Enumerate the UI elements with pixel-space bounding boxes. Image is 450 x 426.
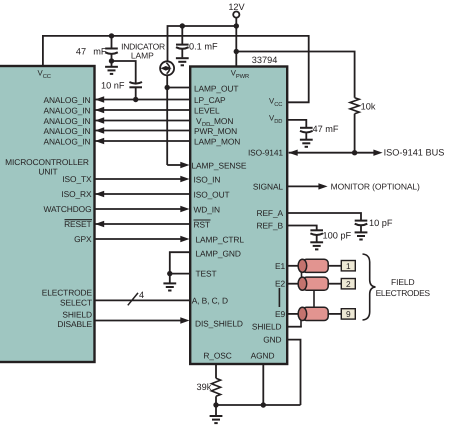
svg-text:ANALOG_IN: ANALOG_IN [43,126,90,136]
wire ANALOG_IN row5 / LAMP_MON [94,138,190,144]
ground for C2 [300,140,313,147]
svg-text:100 pF: 100 pF [323,231,352,241]
wire LAMP_SENSE with arrow [167,164,182,166]
svg-text:LAMP: LAMP [131,50,154,60]
wire cyl1 to box1 [328,265,341,267]
svg-text:PWR_MON: PWR_MON [194,126,237,136]
svg-text:LAMP_OUT: LAMP_OUT [194,83,238,93]
microcontroller labels [5,68,92,329]
wire LAMP_OUT [167,87,190,89]
svg-text:E2: E2 [275,279,285,289]
svg-text:LEVEL: LEVEL [194,105,220,115]
wire ANALOG_IN row2 / LEVEL [94,107,190,113]
wire E2 [288,283,301,285]
wire rail y26 to lamp [168,26,237,61]
wire cyl2 to cyl9 [313,290,315,307]
indicator lamp [121,41,174,75]
wire ANALOG_IN row1 / LP_CAP [94,96,190,102]
svg-text:SIGNAL: SIGNAL [253,182,284,192]
svg-text:LAMP_CTRL: LAMP_CTRL [196,234,245,244]
wire V_DD to 47mF [288,120,307,128]
svg-text:2: 2 [346,279,351,289]
E2..E9 continuation line [278,288,280,307]
terminal box 9 [341,309,355,319]
svg-text:0.1 mF: 0.1 mF [189,41,218,51]
terminal box 2 [341,279,355,289]
wire AGND down [262,364,264,405]
wire E1 [288,265,301,267]
svg-text:LAMP_MON: LAMP_MON [194,136,240,146]
svg-text:_MON: _MON [209,116,234,126]
wire ANALOG_IN row4 / PWR_MON [94,127,190,133]
node 47mF bottom [109,58,114,63]
svg-text:GND: GND [263,335,281,345]
wire E9 [288,313,301,315]
svg-text:TEST: TEST [196,269,217,279]
node AGND/gnd [261,402,266,407]
svg-text:33794: 33794 [252,55,278,65]
svg-text:UNIT: UNIT [38,166,57,176]
svg-text:REF_A: REF_A [257,208,284,218]
electrode cylinder 2 [298,277,328,290]
svg-text:LP_CAP: LP_CAP [194,95,226,105]
wire TEST [170,273,190,275]
svg-text:ELECTRODE: ELECTRODE [42,287,93,297]
wire WATCHDOG to WD_IN [94,206,190,212]
33794 right pin labels [203,96,285,360]
svg-text:RESET: RESET [64,219,91,229]
ground for 47mF [105,67,118,74]
node 12V/lamp rail [234,23,239,28]
wire rail y51.5 to 10k [236,52,354,98]
wire R_OSC down [215,364,217,378]
svg-text:ISO-9141: ISO-9141 [248,147,283,157]
svg-text:LAMP_SENSE: LAMP_SENSE [192,160,247,170]
node 47mF tap on rail [109,33,114,38]
capacitor 100 pF [310,230,351,242]
capacitor 10 nF [101,81,142,100]
svg-text:E1: E1 [275,261,285,271]
wire REF_A to 10pF [288,213,361,221]
wire ground bus y405 [216,404,301,406]
wire REF_B to 100pF [288,226,317,231]
svg-text:MICROCONTROLLER: MICROCONTROLLER [5,157,89,167]
wire rail y35.5 Vcc rail [43,36,309,102]
svg-text:DIS_SHIELD: DIS_SHIELD [195,318,243,328]
wire 39k to ground node [215,396,217,416]
node 10nF to ANALOG row1 [133,97,138,102]
svg-text:CC: CC [274,101,282,108]
svg-text:DD: DD [274,119,282,125]
svg-text:39k: 39k [197,382,212,392]
ground for 100pF [310,242,323,249]
wire SHIELD DISABLE to DIS_SHIELD [94,317,190,323]
wire cyl9 to shield [300,321,302,327]
wire 12V vertical to V_PWR [235,18,237,67]
svg-text:ISO_OUT: ISO_OUT [194,189,230,199]
33794 left pin labels [192,68,250,328]
resistor R2 39k [197,378,221,396]
svg-text:CC: CC [43,73,51,80]
wire ISO_OUT to ISO_RX [94,191,190,197]
node 0.1mF tap [180,23,185,28]
resistor R1 10k [350,98,376,114]
wire cyl1 to cyl2 [301,272,303,277]
capacitor 10 pF [355,218,393,233]
svg-text:47 mF: 47 mF [313,124,339,134]
wire SHIELD [288,326,302,328]
microcontroller block U1 [0,66,95,362]
wire 10k to ISO-9141 line [354,114,356,153]
svg-text:ISO_RX: ISO_RX [61,189,92,199]
ground for 0.1mF [176,58,189,65]
svg-text:4: 4 [139,290,144,300]
IC 33794 block U2 [190,67,287,365]
svg-text:A, B, C, D: A, B, C, D [192,296,228,306]
label FIELD ELECTRODES [376,277,431,298]
node lamp/LAMP_OUT junction [165,85,170,90]
svg-text:10 pF: 10 pF [369,218,393,228]
ground for 10pF [355,232,368,239]
svg-text:9: 9 [346,309,351,319]
svg-text:10 nF: 10 nF [101,81,125,91]
svg-text:ANALOG_IN: ANALOG_IN [43,116,90,126]
capacitor 0.1 mF [176,26,218,57]
brace field electrodes [363,254,376,320]
node TEST/LAMP_GND [167,271,172,276]
svg-text:DISABLE: DISABLE [57,319,92,329]
bus slash [128,293,138,305]
svg-text:WATCHDOG: WATCHDOG [43,204,91,214]
svg-text:12V: 12V [228,2,245,12]
svg-text:SELECT: SELECT [60,297,92,307]
svg-text:47 mF: 47 mF [76,46,107,56]
svg-text:R_OSC: R_OSC [203,350,231,360]
wire GPX to LAMP_CTRL [94,236,190,242]
svg-text:SHIELD: SHIELD [252,322,282,332]
capacitor C2 47 mF [300,124,339,139]
svg-text:ANALOG_IN: ANALOG_IN [43,106,90,116]
svg-text:10k: 10k [361,102,376,112]
wire LAMP_GND to ground [170,252,190,273]
node 39k/gnd [213,402,218,407]
svg-text:LAMP_GND: LAMP_GND [196,249,241,259]
svg-text:ELECTRODES: ELECTRODES [376,288,431,298]
svg-text:AGND: AGND [251,350,275,360]
wire GND down [288,340,301,405]
node 10k/ISO-9141 [352,150,357,155]
wire lamp bottom to LAMP_OUT / LAMP_SENSE [166,75,168,165]
ground for 39k [210,416,223,423]
svg-text:GPX: GPX [74,234,92,244]
svg-text:MONITOR (OPTIONAL): MONITOR (OPTIONAL) [331,182,420,192]
svg-text:E9: E9 [275,309,285,319]
wire SIGNAL to monitor [288,182,420,192]
svg-text:FIELD: FIELD [391,277,415,287]
svg-text:PWR: PWR [236,74,249,80]
svg-text:REF_B: REF_B [257,221,284,231]
wire ELECTRODE SELECT bus [94,299,190,301]
svg-text:ISO_IN: ISO_IN [194,174,221,184]
wire ANALOG_IN row3 / VDD_MON [94,117,190,123]
wire cyl9 to box9 [328,313,341,315]
svg-text:ISO_TX: ISO_TX [62,174,92,184]
svg-text:RST: RST [194,219,210,229]
terminal box 1 [341,261,355,271]
node 12V/10k rail [234,49,239,54]
wire ISO-9141 bus line with arrows [289,148,445,158]
svg-text:ANALOG_IN: ANALOG_IN [43,137,90,147]
12V supply terminal [228,2,245,18]
ground for TEST/LAMP_GND [163,274,176,291]
wire 47mF node to 10nF [112,61,136,84]
svg-text:SHIELD: SHIELD [62,309,92,319]
electrode cylinder 1 [298,259,328,272]
svg-text:ISO-9141 BUS: ISO-9141 BUS [384,148,445,158]
electrode cylinder 9 [298,307,328,320]
svg-text:WD_IN: WD_IN [194,204,221,214]
wire RST to RESET [94,221,190,227]
capacitor C1 47 mF [76,36,118,66]
svg-text:ANALOG_IN: ANALOG_IN [43,95,90,105]
wire ISO_TX to ISO_IN [94,176,190,182]
svg-text:1: 1 [346,261,351,271]
wire cyl2 to box2 [328,283,341,285]
